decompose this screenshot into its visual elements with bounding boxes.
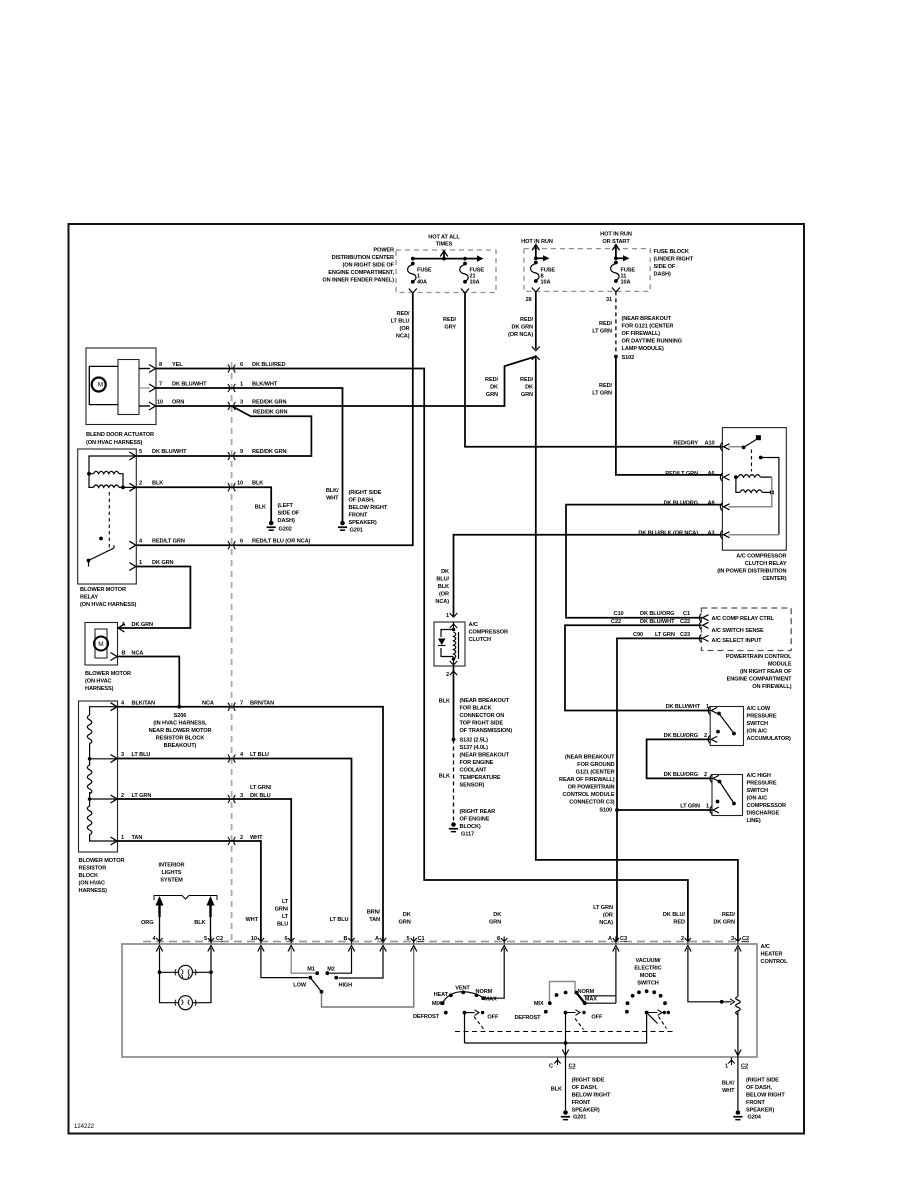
svg-text:LT GRN/: LT GRN/ bbox=[250, 785, 272, 791]
svg-text:9: 9 bbox=[240, 449, 243, 455]
svg-text:1: 1 bbox=[706, 804, 709, 810]
svg-text:DK BLU/ORG: DK BLU/ORG bbox=[664, 733, 698, 739]
svg-text:HIGH: HIGH bbox=[339, 983, 353, 989]
svg-text:SIDE OF: SIDE OF bbox=[278, 511, 300, 517]
svg-text:RESISTOR: RESISTOR bbox=[79, 866, 107, 872]
svg-text:NCA): NCA) bbox=[435, 599, 449, 605]
svg-text:(ON A/C: (ON A/C bbox=[747, 796, 768, 802]
svg-text:5: 5 bbox=[406, 936, 409, 942]
svg-text:BRN/: BRN/ bbox=[367, 910, 381, 916]
svg-text:2: 2 bbox=[121, 793, 124, 799]
svg-text:OF DASH,: OF DASH, bbox=[572, 1085, 598, 1091]
svg-text:LT BLU: LT BLU bbox=[391, 319, 410, 325]
svg-text:LT GRN: LT GRN bbox=[592, 329, 612, 335]
svg-text:31: 31 bbox=[606, 297, 612, 303]
svg-text:ORG: ORG bbox=[141, 920, 153, 926]
svg-text:ENGINE COMPARTMENT,: ENGINE COMPARTMENT, bbox=[328, 270, 394, 276]
svg-text:G202: G202 bbox=[279, 527, 292, 533]
svg-text:1: 1 bbox=[139, 560, 142, 566]
svg-text:G201: G201 bbox=[573, 1115, 586, 1121]
svg-text:A3: A3 bbox=[708, 531, 715, 537]
svg-text:6: 6 bbox=[240, 539, 243, 545]
svg-text:(UNDER RIGHT: (UNDER RIGHT bbox=[654, 257, 694, 263]
svg-text:DK: DK bbox=[493, 912, 501, 918]
svg-text:DK BLU/ORG: DK BLU/ORG bbox=[664, 500, 698, 506]
svg-text:DK BLU/WHT: DK BLU/WHT bbox=[666, 704, 701, 710]
svg-text:M: M bbox=[98, 641, 103, 648]
svg-text:DASH): DASH) bbox=[278, 518, 295, 524]
svg-text:C: C bbox=[549, 1064, 553, 1070]
svg-text:DISTRIBUTION CENTER: DISTRIBUTION CENTER bbox=[332, 255, 394, 261]
svg-text:3: 3 bbox=[240, 793, 243, 799]
svg-text:SWITCH: SWITCH bbox=[747, 721, 769, 727]
svg-text:RED/: RED/ bbox=[485, 377, 499, 383]
svg-text:A/C SELECT INPUT: A/C SELECT INPUT bbox=[712, 638, 763, 644]
svg-text:2: 2 bbox=[446, 672, 449, 678]
svg-text:A/C COMPRESSOR: A/C COMPRESSOR bbox=[736, 554, 786, 560]
svg-text:(NEAR BREAKOUT: (NEAR BREAKOUT bbox=[565, 755, 615, 761]
svg-text:DK BLU/WHT: DK BLU/WHT bbox=[172, 382, 207, 388]
svg-text:(ON HVAC: (ON HVAC bbox=[85, 679, 112, 685]
svg-text:DK GRN: DK GRN bbox=[132, 622, 154, 628]
svg-text:CENTER): CENTER) bbox=[762, 576, 786, 582]
svg-text:C10: C10 bbox=[614, 611, 624, 617]
svg-text:A/C COMP RELAY CTRL: A/C COMP RELAY CTRL bbox=[712, 616, 775, 622]
svg-text:CONTROL MODULE: CONTROL MODULE bbox=[563, 792, 615, 798]
svg-text:HOT IN RUN: HOT IN RUN bbox=[521, 239, 553, 245]
svg-text:CLUTCH RELAY: CLUTCH RELAY bbox=[745, 561, 787, 567]
svg-text:POWERTRAIN CONTROL: POWERTRAIN CONTROL bbox=[726, 654, 792, 660]
svg-text:TOP RIGHT SIDE: TOP RIGHT SIDE bbox=[460, 721, 504, 727]
svg-text:1: 1 bbox=[446, 613, 449, 619]
svg-text:CONTROL: CONTROL bbox=[761, 959, 789, 965]
svg-text:WHT: WHT bbox=[722, 1088, 735, 1094]
svg-text:BLK/: BLK/ bbox=[722, 1081, 735, 1087]
svg-text:7: 7 bbox=[159, 382, 162, 388]
svg-text:OR START: OR START bbox=[602, 239, 630, 245]
svg-text:NCA): NCA) bbox=[599, 920, 613, 926]
svg-text:10A: 10A bbox=[470, 280, 480, 286]
svg-text:LT GRN: LT GRN bbox=[593, 905, 613, 911]
svg-text:BLK/: BLK/ bbox=[326, 488, 339, 494]
svg-text:CLUTCH: CLUTCH bbox=[469, 637, 491, 643]
svg-text:C23: C23 bbox=[680, 632, 690, 638]
svg-text:10: 10 bbox=[157, 400, 163, 406]
svg-text:OF TRANSMISSION): OF TRANSMISSION) bbox=[460, 728, 513, 734]
svg-text:DASH): DASH) bbox=[654, 272, 671, 278]
svg-text:10A: 10A bbox=[541, 280, 551, 286]
svg-text:C2: C2 bbox=[216, 936, 223, 942]
svg-text:SYSTEM: SYSTEM bbox=[160, 878, 183, 884]
svg-text:3: 3 bbox=[121, 752, 124, 758]
svg-text:MIX: MIX bbox=[432, 1001, 442, 1007]
svg-text:RED/: RED/ bbox=[722, 912, 736, 918]
svg-text:DK BLU/ORG: DK BLU/ORG bbox=[664, 772, 698, 778]
svg-text:(ON HVAC HARNESS): (ON HVAC HARNESS) bbox=[86, 440, 143, 446]
svg-text:SPEAKER): SPEAKER) bbox=[349, 520, 377, 526]
svg-text:HEAT: HEAT bbox=[434, 992, 449, 998]
svg-text:2: 2 bbox=[139, 481, 142, 487]
svg-text:SWITCH: SWITCH bbox=[637, 981, 659, 987]
svg-text:(RIGHT REAR: (RIGHT REAR bbox=[460, 809, 496, 815]
svg-text:WHT: WHT bbox=[245, 917, 258, 923]
svg-text:HOT IN RUN: HOT IN RUN bbox=[600, 232, 632, 238]
svg-text:10: 10 bbox=[237, 481, 243, 487]
svg-text:WHT: WHT bbox=[250, 835, 263, 841]
svg-text:LT GRN: LT GRN bbox=[132, 793, 152, 799]
svg-text:RESISTOR BLOCK: RESISTOR BLOCK bbox=[156, 736, 205, 742]
svg-text:BLU: BLU bbox=[277, 922, 288, 928]
svg-text:C3: C3 bbox=[620, 936, 627, 942]
svg-text:YEL: YEL bbox=[172, 362, 183, 368]
svg-text:RED/: RED/ bbox=[520, 377, 534, 383]
svg-text:LT BLU: LT BLU bbox=[250, 752, 269, 758]
svg-text:LT GRN: LT GRN bbox=[592, 391, 612, 397]
svg-text:PRESSURE: PRESSURE bbox=[747, 781, 777, 787]
svg-text:A6: A6 bbox=[708, 471, 715, 477]
svg-text:BLOCK: BLOCK bbox=[79, 873, 98, 879]
svg-text:(OR: (OR bbox=[400, 326, 410, 332]
svg-text:BLK: BLK bbox=[255, 505, 266, 511]
svg-text:LT BLU: LT BLU bbox=[330, 917, 349, 923]
svg-text:BLK: BLK bbox=[252, 481, 263, 487]
svg-text:NORM: NORM bbox=[578, 989, 595, 995]
svg-text:A: A bbox=[122, 622, 126, 628]
svg-text:G201: G201 bbox=[350, 528, 363, 534]
svg-text:HARNESS): HARNESS) bbox=[79, 888, 108, 894]
svg-text:(IN RIGHT REAR OF: (IN RIGHT REAR OF bbox=[740, 669, 792, 675]
svg-text:DK BLU/WHT: DK BLU/WHT bbox=[640, 619, 675, 625]
svg-text:B: B bbox=[344, 936, 348, 942]
svg-text:RELAY: RELAY bbox=[80, 595, 98, 601]
svg-text:S100: S100 bbox=[599, 808, 612, 814]
svg-text:G117: G117 bbox=[461, 832, 474, 838]
svg-text:DK GRN: DK GRN bbox=[512, 325, 534, 331]
svg-text:NORM: NORM bbox=[476, 989, 493, 995]
svg-text:RED/: RED/ bbox=[599, 321, 613, 327]
svg-text:(OR: (OR bbox=[439, 592, 449, 598]
svg-text:FOR GROUND: FOR GROUND bbox=[577, 762, 614, 768]
svg-text:ACCUMULATOR): ACCUMULATOR) bbox=[747, 736, 792, 742]
svg-text:BLK: BLK bbox=[439, 699, 450, 705]
svg-text:OFF: OFF bbox=[487, 1015, 499, 1021]
svg-text:2: 2 bbox=[704, 772, 707, 778]
svg-text:RED/DK GRN: RED/DK GRN bbox=[252, 400, 286, 406]
svg-text:LT BLU: LT BLU bbox=[132, 752, 151, 758]
svg-text:ORN: ORN bbox=[172, 400, 184, 406]
svg-text:RED/: RED/ bbox=[520, 317, 534, 323]
svg-text:(NEAR BREAKOUT: (NEAR BREAKOUT bbox=[622, 316, 672, 322]
svg-text:LT GRN: LT GRN bbox=[680, 804, 700, 810]
svg-text:SPEAKER): SPEAKER) bbox=[746, 1108, 774, 1114]
svg-text:MIX: MIX bbox=[534, 1001, 544, 1007]
svg-text:RED/LT GRN: RED/LT GRN bbox=[665, 471, 698, 477]
svg-text:OR DAYTIME RUNNING: OR DAYTIME RUNNING bbox=[622, 339, 682, 345]
svg-text:DK BLU/ORG: DK BLU/ORG bbox=[640, 611, 674, 617]
svg-text:SWITCH: SWITCH bbox=[747, 788, 769, 794]
svg-text:GRN: GRN bbox=[486, 392, 498, 398]
svg-text:C22: C22 bbox=[611, 619, 621, 625]
svg-text:A: A bbox=[608, 936, 612, 942]
svg-text:ELECTRIC: ELECTRIC bbox=[634, 966, 661, 972]
svg-text:(ON A/C: (ON A/C bbox=[747, 729, 768, 735]
svg-text:LT: LT bbox=[282, 914, 289, 920]
svg-text:RED/DK GRN: RED/DK GRN bbox=[252, 449, 286, 455]
svg-text:BLOCK): BLOCK) bbox=[460, 824, 481, 830]
svg-text:A/C SWITCH SENSE: A/C SWITCH SENSE bbox=[712, 628, 765, 634]
svg-text:BLK: BLK bbox=[194, 920, 205, 926]
svg-text:S132 (2.5L): S132 (2.5L) bbox=[460, 738, 489, 744]
svg-text:NCA: NCA bbox=[202, 701, 214, 707]
svg-text:BLU/: BLU/ bbox=[436, 577, 449, 583]
svg-text:DK BLU/RED: DK BLU/RED bbox=[252, 362, 286, 368]
svg-text:POWER: POWER bbox=[373, 248, 394, 254]
svg-text:1: 1 bbox=[725, 1064, 728, 1070]
svg-text:S137 (4.0L): S137 (4.0L) bbox=[460, 745, 489, 751]
svg-text:RED/LT BLU (OR NCA): RED/LT BLU (OR NCA) bbox=[252, 539, 311, 545]
svg-text:MAX: MAX bbox=[585, 997, 597, 1003]
svg-text:COOLANT: COOLANT bbox=[460, 768, 488, 774]
svg-text:(ON HVAC HARNESS): (ON HVAC HARNESS) bbox=[80, 602, 137, 608]
svg-text:COMPRESSOR: COMPRESSOR bbox=[747, 803, 786, 809]
svg-text:MODE: MODE bbox=[640, 973, 657, 979]
svg-text:BELOW RIGHT: BELOW RIGHT bbox=[572, 1093, 611, 1099]
svg-text:(ON HVAC: (ON HVAC bbox=[79, 881, 106, 887]
svg-text:10A: 10A bbox=[621, 280, 631, 286]
svg-text:A/C: A/C bbox=[761, 944, 770, 950]
svg-text:C3: C3 bbox=[569, 1064, 576, 1070]
svg-text:DK BLU: DK BLU bbox=[250, 793, 271, 799]
svg-text:TAN: TAN bbox=[369, 917, 380, 923]
svg-text:2: 2 bbox=[681, 936, 684, 942]
svg-text:(RIGHT SIDE: (RIGHT SIDE bbox=[572, 1078, 605, 1084]
svg-text:FUSE BLOCK: FUSE BLOCK bbox=[654, 249, 689, 255]
svg-text:NEAR BLOWER MOTOR: NEAR BLOWER MOTOR bbox=[149, 728, 212, 734]
svg-text:5: 5 bbox=[139, 449, 142, 455]
svg-text:(IN POWER DISTRIBUTION: (IN POWER DISTRIBUTION bbox=[717, 569, 786, 575]
svg-text:SPEAKER): SPEAKER) bbox=[572, 1108, 600, 1114]
svg-text:FRONT: FRONT bbox=[349, 513, 368, 519]
svg-text:FOR ENGINE: FOR ENGINE bbox=[460, 760, 494, 766]
svg-text:DK GRN: DK GRN bbox=[713, 920, 735, 926]
svg-text:GRN/: GRN/ bbox=[275, 907, 289, 913]
svg-text:(RIGHT SIDE: (RIGHT SIDE bbox=[349, 490, 382, 496]
svg-text:3: 3 bbox=[731, 936, 734, 942]
svg-text:124222: 124222 bbox=[74, 1124, 95, 1130]
svg-text:WHT: WHT bbox=[326, 496, 339, 502]
svg-text:DK GRN: DK GRN bbox=[152, 560, 174, 566]
svg-text:C1: C1 bbox=[418, 936, 425, 942]
svg-text:BELOW RIGHT: BELOW RIGHT bbox=[349, 505, 388, 511]
svg-text:40A: 40A bbox=[417, 280, 427, 286]
svg-text:M1: M1 bbox=[307, 967, 315, 973]
svg-text:DK BLU/: DK BLU/ bbox=[663, 912, 686, 918]
svg-text:A/C: A/C bbox=[469, 622, 478, 628]
svg-text:DK BLU/BLK (OR NCA): DK BLU/BLK (OR NCA) bbox=[638, 531, 698, 537]
svg-text:A/C HIGH: A/C HIGH bbox=[747, 773, 771, 779]
svg-text:OF DASH,: OF DASH, bbox=[746, 1085, 772, 1091]
svg-text:BLOWER MOTOR: BLOWER MOTOR bbox=[79, 858, 125, 864]
svg-text:(OR: (OR bbox=[603, 913, 613, 919]
svg-text:RED/: RED/ bbox=[443, 317, 457, 323]
svg-text:BLEND DOOR ACTUATOR: BLEND DOOR ACTUATOR bbox=[86, 432, 154, 438]
svg-text:DEFROST: DEFROST bbox=[514, 1015, 541, 1021]
svg-text:GRN: GRN bbox=[399, 920, 411, 926]
svg-text:1: 1 bbox=[706, 704, 709, 710]
svg-text:RED/LT GRN: RED/LT GRN bbox=[152, 539, 185, 545]
svg-text:C22: C22 bbox=[680, 619, 690, 625]
svg-text:3: 3 bbox=[240, 400, 243, 406]
svg-text:NCA: NCA bbox=[132, 651, 144, 657]
svg-text:MODULE: MODULE bbox=[768, 662, 792, 668]
svg-text:2: 2 bbox=[704, 733, 707, 739]
svg-text:BELOW RIGHT: BELOW RIGHT bbox=[746, 1093, 785, 1099]
svg-text:C1: C1 bbox=[683, 611, 690, 617]
svg-text:1: 1 bbox=[240, 382, 243, 388]
svg-text:CONNECTOR ON: CONNECTOR ON bbox=[460, 713, 505, 719]
svg-text:BREAKOUT): BREAKOUT) bbox=[164, 743, 197, 749]
svg-text:DK: DK bbox=[525, 385, 533, 391]
svg-text:(OR NCA): (OR NCA) bbox=[508, 332, 533, 338]
svg-text:B: B bbox=[122, 651, 126, 657]
svg-text:RED/GRY: RED/GRY bbox=[673, 441, 698, 447]
svg-text:G204: G204 bbox=[748, 1115, 762, 1121]
svg-text:GRY: GRY bbox=[444, 325, 456, 331]
svg-text:5: 5 bbox=[204, 936, 207, 942]
svg-text:A/C LOW: A/C LOW bbox=[747, 706, 771, 712]
svg-text:BLOWER MOTOR: BLOWER MOTOR bbox=[85, 671, 131, 677]
svg-text:10: 10 bbox=[251, 936, 257, 942]
svg-text:HARNESS): HARNESS) bbox=[85, 686, 114, 692]
svg-text:OFF: OFF bbox=[591, 1015, 603, 1021]
svg-text:OF FIREWALL): OF FIREWALL) bbox=[622, 331, 661, 337]
svg-text:BLK: BLK bbox=[439, 774, 450, 780]
svg-text:6: 6 bbox=[284, 936, 287, 942]
svg-text:SIDE OF: SIDE OF bbox=[654, 264, 676, 270]
svg-text:INTERIOR: INTERIOR bbox=[159, 863, 185, 869]
svg-text:A10: A10 bbox=[705, 441, 715, 447]
svg-text:G121 (CENTER: G121 (CENTER bbox=[576, 770, 615, 776]
svg-text:ON FIREWALL): ON FIREWALL) bbox=[752, 684, 791, 690]
svg-text:7: 7 bbox=[240, 701, 243, 707]
svg-text:GRN: GRN bbox=[489, 920, 501, 926]
svg-text:(NEAR BREAKOUT: (NEAR BREAKOUT bbox=[460, 698, 510, 704]
svg-text:BLK: BLK bbox=[551, 1087, 562, 1093]
svg-text:S102: S102 bbox=[622, 355, 635, 361]
svg-text:BRN/TAN: BRN/TAN bbox=[250, 701, 274, 707]
svg-text:A8: A8 bbox=[708, 500, 715, 506]
svg-text:FOR BLACK: FOR BLACK bbox=[460, 706, 492, 712]
svg-text:TAN: TAN bbox=[132, 835, 143, 841]
svg-text:BLK: BLK bbox=[152, 481, 163, 487]
svg-text:DEFROST: DEFROST bbox=[413, 1014, 440, 1020]
svg-text:LIGHTS: LIGHTS bbox=[162, 870, 182, 876]
svg-text:ENGINE COMPARTMENT: ENGINE COMPARTMENT bbox=[727, 677, 793, 683]
svg-text:GRN: GRN bbox=[521, 392, 533, 398]
svg-text:RED/: RED/ bbox=[599, 383, 613, 389]
svg-text:LINE): LINE) bbox=[747, 818, 761, 824]
svg-text:BLOWER MOTOR: BLOWER MOTOR bbox=[80, 587, 126, 593]
svg-text:FOR G121 (CENTER: FOR G121 (CENTER bbox=[622, 324, 674, 330]
svg-text:LOW: LOW bbox=[293, 983, 307, 989]
svg-text:DISCHARGE: DISCHARGE bbox=[747, 811, 780, 817]
svg-text:OR POWERTRAIN: OR POWERTRAIN bbox=[568, 785, 615, 791]
svg-text:C2: C2 bbox=[741, 1064, 748, 1070]
svg-text:2: 2 bbox=[240, 835, 243, 841]
svg-text:ON INNER FENDER PANEL): ON INNER FENDER PANEL) bbox=[322, 278, 394, 284]
svg-text:C2: C2 bbox=[742, 936, 749, 942]
svg-text:DK: DK bbox=[490, 385, 498, 391]
svg-text:LT GRN: LT GRN bbox=[655, 632, 675, 638]
svg-text:M2: M2 bbox=[327, 967, 335, 973]
svg-text:BLK: BLK bbox=[438, 584, 449, 590]
svg-text:8: 8 bbox=[159, 362, 162, 368]
svg-text:OF DASH,: OF DASH, bbox=[349, 498, 375, 504]
svg-text:CONNECTOR C3): CONNECTOR C3) bbox=[569, 800, 614, 806]
svg-text:1: 1 bbox=[121, 835, 124, 841]
svg-text:BLK/TAN: BLK/TAN bbox=[132, 701, 155, 707]
svg-text:RED/: RED/ bbox=[397, 311, 411, 317]
svg-text:(LEFT: (LEFT bbox=[278, 503, 294, 509]
svg-text:REAR OF FIREWALL): REAR OF FIREWALL) bbox=[559, 777, 615, 783]
svg-text:RED/DK GRN: RED/DK GRN bbox=[253, 410, 287, 416]
svg-text:DK: DK bbox=[441, 569, 449, 575]
svg-text:OF ENGINE: OF ENGINE bbox=[460, 817, 490, 823]
svg-text:NCA): NCA) bbox=[396, 334, 410, 340]
svg-text:(RIGHT SIDE: (RIGHT SIDE bbox=[746, 1078, 779, 1084]
svg-text:S206: S206 bbox=[174, 713, 187, 719]
svg-text:TIMES: TIMES bbox=[436, 242, 453, 248]
svg-text:A: A bbox=[375, 936, 379, 942]
svg-text:DK: DK bbox=[403, 912, 411, 918]
svg-text:DK BLU/WHT: DK BLU/WHT bbox=[152, 449, 187, 455]
svg-text:VENT: VENT bbox=[455, 986, 470, 992]
svg-text:LAMP MODULE): LAMP MODULE) bbox=[622, 346, 664, 352]
svg-text:TEMPERATURE: TEMPERATURE bbox=[460, 775, 501, 781]
svg-text:LT: LT bbox=[282, 899, 289, 905]
svg-text:(ON RIGHT SIDE OF: (ON RIGHT SIDE OF bbox=[343, 263, 395, 269]
svg-text:(NEAR BREAKOUT: (NEAR BREAKOUT bbox=[460, 753, 510, 759]
svg-text:SENSOR): SENSOR) bbox=[460, 783, 485, 789]
svg-text:M: M bbox=[98, 382, 103, 389]
svg-text:FRONT: FRONT bbox=[572, 1100, 591, 1106]
svg-text:PRESSURE: PRESSURE bbox=[747, 714, 777, 720]
svg-text:C90: C90 bbox=[633, 632, 643, 638]
svg-text:6: 6 bbox=[240, 362, 243, 368]
svg-text:8: 8 bbox=[497, 936, 500, 942]
svg-text:COMPRESSOR: COMPRESSOR bbox=[469, 630, 508, 636]
svg-text:HEATER: HEATER bbox=[761, 952, 783, 958]
svg-text:FRONT: FRONT bbox=[746, 1100, 765, 1106]
svg-text:BLK/WHT: BLK/WHT bbox=[252, 382, 278, 388]
svg-text:(IN HVAC HARNESS,: (IN HVAC HARNESS, bbox=[153, 721, 207, 727]
svg-text:28: 28 bbox=[526, 297, 532, 303]
svg-text:HOT AT ALL: HOT AT ALL bbox=[428, 235, 460, 241]
svg-text:VACUUM/: VACUUM/ bbox=[636, 958, 662, 964]
svg-text:MAX: MAX bbox=[485, 997, 497, 1003]
svg-text:RED: RED bbox=[673, 920, 685, 926]
